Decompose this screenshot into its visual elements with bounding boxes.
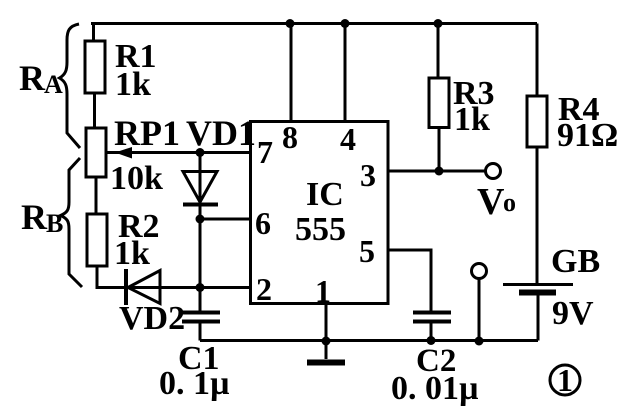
svg-text:1: 1 bbox=[557, 362, 573, 398]
wire C2 bottom lead bbox=[430, 323, 433, 341]
wire R4 bottom to battery + bbox=[536, 147, 539, 284]
wire top supply rail bbox=[91, 22, 537, 25]
node C2 junction bbox=[427, 336, 436, 345]
capacitor C2 bbox=[413, 313, 451, 322]
node pin2/C1 junction bbox=[196, 283, 205, 292]
svg-text:5: 5 bbox=[359, 233, 375, 269]
svg-text:4: 4 bbox=[340, 121, 356, 157]
resistor R4 bbox=[527, 96, 547, 147]
svg-text:A: A bbox=[44, 70, 63, 99]
svg-text:7: 7 bbox=[257, 134, 273, 170]
svg-text:1: 1 bbox=[315, 273, 331, 309]
svg-text:2: 2 bbox=[256, 271, 272, 307]
terminal Vo bbox=[486, 164, 501, 179]
wire rail to R3 top bbox=[437, 24, 440, 79]
svg-text:R: R bbox=[21, 197, 48, 237]
diode VD1 bbox=[183, 172, 218, 205]
svg-text:9V: 9V bbox=[552, 295, 594, 332]
wire R1 bottom to RP1 top bbox=[93, 93, 96, 128]
svg-text:IC: IC bbox=[306, 176, 344, 213]
node pin3/R3 junction bbox=[435, 167, 444, 176]
wire pin 5 to C2 top bbox=[388, 250, 431, 311]
battery GB bbox=[503, 285, 573, 293]
wire pin 4 to rail bbox=[344, 24, 347, 122]
svg-text:0. 1µ: 0. 1µ bbox=[159, 365, 230, 402]
svg-text:1k: 1k bbox=[114, 235, 150, 272]
svg-text:10k: 10k bbox=[110, 160, 163, 197]
wire RP1 wiper to pin 7 bbox=[106, 151, 251, 154]
node rail pin4 bbox=[341, 19, 350, 28]
wire C1 top lead bbox=[199, 288, 202, 312]
node terminal junction bbox=[475, 337, 484, 346]
node pin6 junction bbox=[196, 215, 205, 224]
wire rail to R1 top bbox=[92, 24, 95, 42]
brace RA bbox=[60, 24, 81, 148]
ground bbox=[307, 360, 345, 366]
potentiometer RP1 body bbox=[86, 128, 106, 177]
svg-text:VD1: VD1 bbox=[186, 113, 256, 153]
node pin7 junction bbox=[196, 148, 205, 157]
svg-text:RP1: RP1 bbox=[114, 113, 180, 153]
svg-text:555: 555 bbox=[295, 211, 346, 248]
wire battery - to ground rail bbox=[537, 295, 540, 341]
svg-text:1k: 1k bbox=[115, 66, 151, 103]
op-amp U1 : IC 555 box bbox=[251, 122, 389, 304]
svg-text:1k: 1k bbox=[454, 101, 490, 138]
wire pin 3 to Vo terminal bbox=[388, 170, 486, 173]
wire pin 1 to ground rail bbox=[325, 303, 328, 341]
svg-text:o: o bbox=[503, 188, 516, 217]
svg-text:8: 8 bbox=[282, 119, 298, 155]
svg-text:91Ω: 91Ω bbox=[557, 117, 618, 154]
svg-text:6: 6 bbox=[255, 205, 271, 241]
node rail R3 bbox=[434, 19, 443, 28]
wire R2 bottom down and right to pin 2 (VD2 branch) bbox=[97, 266, 251, 288]
wire VD1 column pin7 junction down to pin2 wire bbox=[199, 153, 202, 288]
wire RP1 bottom to R2 top bbox=[95, 177, 98, 214]
brace RB bbox=[61, 158, 83, 287]
wire ground stub bbox=[325, 341, 328, 359]
svg-text:R: R bbox=[19, 58, 46, 98]
wire R3 bottom to pin3 node bbox=[438, 128, 441, 172]
node ground junction bbox=[322, 337, 331, 346]
resistor R1 bbox=[85, 41, 105, 93]
capacitor C1 bbox=[182, 313, 220, 322]
node rail pin8 bbox=[286, 19, 295, 28]
svg-text:B: B bbox=[46, 209, 63, 238]
svg-text:GB: GB bbox=[551, 243, 600, 280]
wire terminal to ground rail bbox=[478, 279, 481, 342]
potentiometer RP1 wiper arrow bbox=[115, 147, 132, 159]
svg-text:0. 01µ: 0. 01µ bbox=[391, 370, 479, 407]
resistor R3 bbox=[429, 78, 449, 128]
svg-text:3: 3 bbox=[360, 157, 376, 193]
wire VD1 bottom junction to pin 6 bbox=[200, 218, 251, 221]
wire C1 bottom lead to ground rail bbox=[199, 323, 202, 341]
wire pin 8 to rail bbox=[290, 24, 293, 122]
wire rail right end down to R4 bbox=[536, 24, 539, 97]
resistor R2 bbox=[87, 214, 107, 266]
diode VD2 bbox=[126, 269, 160, 305]
figure number circled 1 bbox=[550, 362, 580, 398]
terminal output lower bbox=[472, 264, 487, 279]
svg-text:VD2: VD2 bbox=[119, 300, 185, 337]
svg-text:V: V bbox=[477, 181, 505, 223]
wire bottom ground rail bbox=[200, 339, 538, 342]
